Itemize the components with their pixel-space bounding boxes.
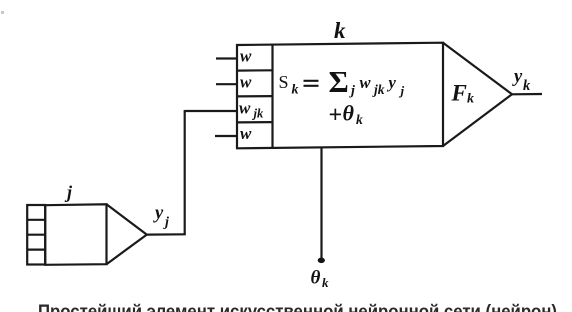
svg-text:S: S bbox=[279, 72, 289, 92]
weight box divider 1 bbox=[237, 69, 273, 71]
svg-text:Простейший элемент искусственн: Простейший элемент искусственной нейронн… bbox=[38, 302, 557, 312]
svg-text:w: w bbox=[240, 73, 252, 92]
label Fk activation function bbox=[451, 81, 475, 107]
svg-text:θ: θ bbox=[343, 101, 355, 126]
svg-text:jk: jk bbox=[372, 82, 385, 97]
input wire 1 bbox=[216, 57, 238, 59]
output wire yk bbox=[512, 93, 542, 96]
weight column right divider bbox=[271, 45, 273, 148]
svg-text:j: j bbox=[399, 83, 405, 98]
svg-text:Σ: Σ bbox=[329, 64, 349, 99]
svg-text:y: y bbox=[387, 73, 397, 92]
svg-text:w: w bbox=[360, 73, 372, 92]
formula sk = sum bbox=[279, 64, 405, 99]
neuron k summation box body bbox=[237, 43, 443, 149]
theta terminal dot bbox=[318, 258, 325, 264]
activation triangle Fk bbox=[443, 43, 512, 146]
neuron j body bbox=[45, 204, 106, 264]
neuron j weight column bbox=[27, 205, 45, 265]
svg-text:k: k bbox=[292, 83, 299, 98]
svg-text:y: y bbox=[512, 67, 523, 87]
label theta k bbox=[311, 268, 330, 291]
input wire 4 bbox=[215, 135, 238, 137]
weight box divider 2 bbox=[237, 95, 273, 98]
neuron j output triangle bbox=[107, 204, 147, 264]
svg-text:F: F bbox=[451, 81, 467, 106]
svg-text:y: y bbox=[153, 204, 164, 224]
svg-text:j: j bbox=[163, 215, 169, 230]
svg-text:w: w bbox=[240, 124, 252, 143]
vertical wire from yj bbox=[184, 110, 186, 234]
svg-text:w: w bbox=[239, 99, 251, 118]
svg-text:k: k bbox=[523, 78, 531, 94]
label yk bbox=[512, 67, 531, 94]
svg-text:j: j bbox=[64, 182, 73, 202]
svg-text:k: k bbox=[356, 112, 363, 127]
formula + theta k bbox=[329, 101, 364, 129]
label yj bbox=[153, 204, 169, 231]
svg-text:jk: jk bbox=[252, 107, 264, 121]
svg-text:w: w bbox=[240, 47, 252, 66]
svg-text:k: k bbox=[334, 18, 346, 43]
weight label wjk bbox=[239, 99, 264, 121]
svg-text:θ: θ bbox=[311, 268, 321, 289]
wire from j apex bbox=[147, 233, 186, 236]
svg-text:+: + bbox=[329, 103, 343, 129]
svg-text:k: k bbox=[467, 92, 474, 107]
svg-text:k: k bbox=[322, 275, 329, 290]
theta input wire bbox=[320, 148, 322, 259]
weight box divider 3 bbox=[237, 121, 273, 124]
input wire 2 bbox=[216, 83, 238, 85]
input wire wjk from neuron j bbox=[185, 110, 237, 112]
svg-text:j: j bbox=[349, 84, 355, 99]
